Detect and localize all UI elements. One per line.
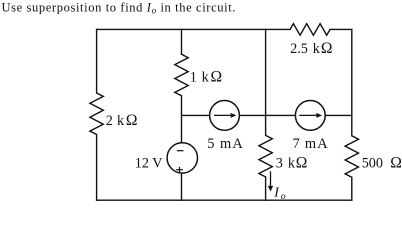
svg-text:2kΩ: 2kΩ	[106, 112, 138, 129]
svg-text:7mA: 7mA	[293, 136, 329, 152]
svg-text:o: o	[281, 191, 286, 202]
svg-text:1kΩ: 1kΩ	[190, 68, 222, 85]
svg-text:500Ω: 500Ω	[362, 155, 402, 172]
svg-text:Use superposition to find Io i: Use superposition to find Io in the circ…	[2, 1, 237, 16]
svg-text:5mA: 5mA	[207, 136, 244, 152]
svg-text:3kΩ: 3kΩ	[276, 154, 308, 171]
